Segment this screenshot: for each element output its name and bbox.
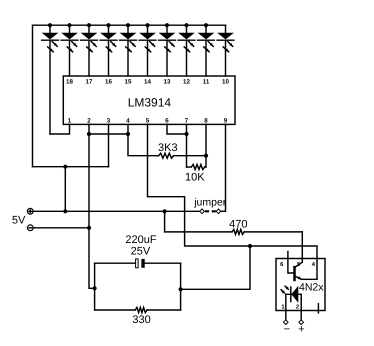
svg-text:17: 17 [86,79,93,86]
svg-text:jumper: jumper [193,196,227,208]
svg-text:11: 11 [203,79,210,86]
svg-text:330: 330 [132,314,150,326]
svg-text:9: 9 [224,117,228,124]
svg-text:12: 12 [183,79,190,86]
svg-text:220uF: 220uF [125,234,156,246]
svg-text:2: 2 [87,117,91,124]
svg-text:4: 4 [126,117,130,124]
svg-text:LM3914: LM3914 [128,95,172,109]
svg-text:5: 5 [146,117,150,124]
svg-text:2: 2 [296,304,299,311]
svg-text:470: 470 [229,219,247,231]
svg-text:4N2x: 4N2x [299,281,324,293]
svg-text:3K3: 3K3 [158,142,178,154]
svg-text:+: + [298,324,304,336]
svg-text:5V: 5V [12,214,26,226]
svg-text:6: 6 [165,117,169,124]
svg-text:7: 7 [185,117,189,124]
svg-text:18: 18 [66,79,73,86]
svg-text:10: 10 [222,79,229,86]
svg-text:−: − [284,324,290,336]
svg-text:13: 13 [164,79,171,86]
svg-text:15: 15 [125,79,132,86]
svg-text:3: 3 [107,117,111,124]
svg-text:25V: 25V [131,245,151,257]
svg-text:8: 8 [204,117,208,124]
svg-text:10K: 10K [185,171,205,183]
svg-text:1: 1 [68,117,72,124]
svg-text:14: 14 [144,79,151,86]
svg-text:16: 16 [105,79,112,86]
